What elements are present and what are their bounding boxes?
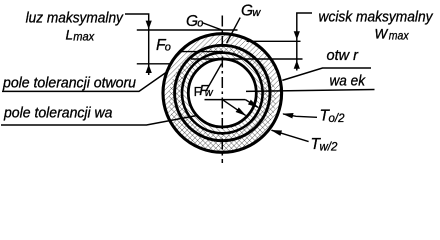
underline+leader pole tolerancji otworu [2, 73, 166, 92]
F_w underline [205, 99, 246, 101]
extension line F_o top [181, 51, 223, 53]
leader walek [246, 90, 375, 92]
svg-text:G: G [241, 2, 253, 19]
underline+leader pole tolerancji walka [1, 116, 197, 126]
hole tolerance field hatch (G_o..F_o ring) [163, 34, 282, 153]
svg-text:o: o [197, 18, 203, 30]
svg-text:pole tolerancji otworu: pole tolerancji otworu [2, 76, 136, 92]
right dimension arrow down [294, 31, 300, 40]
radius arrow B [223, 100, 246, 116]
svg-text:w: w [205, 87, 214, 99]
svg-text:max: max [73, 31, 95, 43]
svg-text:W: W [375, 26, 389, 41]
shaft tolerance field hatch (eccentric outer boundary..F_w) [169, 45, 276, 152]
svg-text:w/2: w/2 [320, 141, 339, 153]
leader G_o [202, 23, 223, 31]
right dimension bracket [297, 13, 312, 71]
extension line F_o right [191, 58, 303, 60]
svg-text:wcisk maksymalny: wcisk maksymalny [319, 8, 434, 25]
circle F_w (shaft min) [188, 59, 256, 127]
svg-text:o: o [165, 42, 171, 54]
right dimension arrow up [294, 60, 300, 69]
svg-text:pole tolerancji wa: pole tolerancji wa [3, 106, 112, 122]
leader T_o/2 [283, 114, 317, 117]
circle G_w (shaft max) [175, 45, 270, 140]
extension line G_o left [137, 29, 238, 31]
circle F_o (hole min) [182, 53, 263, 134]
svg-text:wa ek: wa ek [330, 74, 366, 90]
extension line G_w right [247, 40, 301, 42]
leader otwor [282, 68, 371, 80]
F_w leader to top [207, 64, 222, 90]
left dimension arrow up [146, 64, 152, 73]
vertical centerline [221, 16, 223, 164]
svg-text:L: L [66, 28, 74, 43]
left dimension bracket [125, 14, 149, 75]
svg-text:otw r: otw r [327, 48, 360, 64]
extension line F_w left [137, 63, 171, 65]
circle G_o (hole max) [163, 34, 282, 153]
svg-text:o/2: o/2 [329, 113, 346, 125]
svg-text:luz maksymalny: luz maksymalny [26, 9, 125, 26]
leader G_w [227, 18, 241, 43]
radius arrow A [245, 100, 258, 108]
svg-text:w: w [252, 7, 261, 19]
leader T_w/2 [272, 130, 309, 141]
left dimension arrow down [146, 21, 152, 30]
svg-text:max: max [389, 31, 410, 43]
